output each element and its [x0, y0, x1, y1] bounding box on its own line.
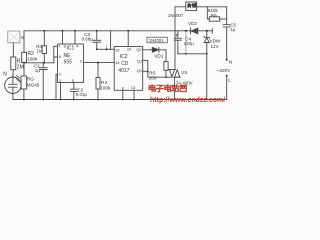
svg-text:5: 5: [72, 78, 74, 83]
wire pin 3 to pin 14: [84, 62, 115, 64]
wire Q2 output: [143, 49, 153, 51]
load box label: [188, 3, 197, 7]
switch S: [8, 31, 20, 43]
capacitor C4: [174, 31, 181, 54]
wire VD1 to R5: [159, 50, 166, 62]
neon lamp N: [5, 76, 21, 93]
wire S to R1: [12, 43, 14, 57]
wire pin 1 to bottom rail: [60, 83, 62, 100]
svg-text:http://www.cndzz.com/: http://www.cndzz.com/: [150, 97, 225, 104]
svg-text:N: N: [229, 60, 233, 66]
svg-text:2: 2: [59, 71, 61, 76]
resistor R2: [22, 52, 27, 62]
resistor R5: [164, 62, 168, 71]
wire node line R2 C1 R3 to pins 6-7: [24, 62, 54, 64]
wire stub above reset node: [106, 45, 108, 50]
wire C4 bottom to zener node: [178, 53, 207, 55]
resistor R3: [42, 46, 46, 54]
wire Q1 output: [143, 60, 148, 71]
diode VD1: [152, 47, 159, 52]
label 1N4001 box: [147, 37, 167, 43]
svg-text:4017: 4017: [118, 68, 129, 74]
pin numbers IC2: [115, 46, 142, 90]
IC U2 CD4017 box: [114, 47, 143, 91]
svg-text:NE: NE: [64, 53, 72, 59]
capacitor C3: [93, 31, 101, 50]
svg-text:Q0: Q0: [137, 68, 143, 73]
wire pin 13 to bottom rail: [133, 90, 135, 99]
svg-text:VD2: VD2: [188, 21, 197, 26]
capacitor C5: [223, 7, 230, 60]
svg-text:6: 6: [59, 54, 61, 59]
svg-text:0.68μ: 0.68μ: [82, 37, 94, 42]
zener VDW: [204, 31, 209, 54]
svg-text:~220V: ~220V: [216, 68, 231, 74]
load box 负载: [186, 2, 197, 11]
svg-text:13: 13: [131, 85, 135, 90]
svg-text:S: S: [21, 35, 24, 40]
wire L to bottom rail: [226, 77, 228, 100]
wire pin 16 to rail: [127, 31, 129, 47]
terminal L: [226, 75, 228, 77]
svg-text:220μ: 220μ: [184, 41, 195, 46]
svg-text:R6: R6: [211, 13, 217, 18]
wire zener to bottom rail: [206, 54, 208, 100]
svg-text:7: 7: [58, 44, 60, 49]
svg-text:1μ: 1μ: [35, 68, 41, 73]
capacitor C1: [40, 63, 48, 100]
wire triac MT1 to bottom rail: [174, 77, 176, 99]
svg-text:1: 1: [59, 78, 61, 83]
watermark line 1: [149, 85, 186, 92]
svg-text:8: 8: [64, 44, 66, 49]
wire R5 to gate line: [165, 70, 167, 77]
svg-text:VS: VS: [181, 70, 187, 76]
wire pins 6 7 tie: [54, 46, 58, 63]
svg-text:MG45: MG45: [27, 82, 40, 87]
wire rail tap down: [185, 31, 187, 54]
svg-text:100k: 100k: [27, 57, 38, 62]
wire R2 to RG: [23, 63, 25, 76]
triac VS: [169, 69, 181, 77]
photoresistor RG: [16, 75, 26, 89]
svg-text:1μ: 1μ: [230, 27, 235, 32]
wire pin 4 to rail: [74, 31, 76, 44]
op-amp U1 IC1 NE555 box: [58, 44, 84, 83]
wire neon to bottom rail: [12, 93, 14, 99]
resistor R6: [207, 7, 226, 21]
svg-text:3: 3: [80, 58, 82, 63]
wire pin 2 to bottom rail: [56, 74, 58, 99]
svg-text:1N4007: 1N4007: [168, 13, 184, 18]
wire rail end tick: [211, 29, 213, 34]
svg-text:0.01μ: 0.01μ: [76, 92, 88, 97]
wire pin 8 to bottom rail: [122, 90, 124, 99]
svg-text:Q1: Q1: [137, 58, 142, 63]
wire reset line to pin 15: [97, 48, 114, 50]
resistor R1: [11, 57, 16, 70]
wire rail left end down to R2: [23, 31, 25, 53]
svg-text:100k: 100k: [100, 86, 111, 91]
svg-text:1M: 1M: [36, 49, 43, 54]
svg-text:12V: 12V: [211, 44, 220, 49]
resistor R4: [96, 63, 100, 100]
svg-text:VD1: VD1: [154, 53, 164, 59]
wire load branch down through rail to triac MT2: [175, 7, 186, 70]
pin numbers IC1: [58, 44, 81, 83]
capacitor C2: [70, 83, 77, 100]
svg-text:L: L: [228, 77, 231, 83]
wire top rail: [24, 30, 212, 32]
wire rail drop to reset line: [110, 31, 112, 50]
wire RG to bottom rail: [23, 89, 25, 100]
svg-text:16: 16: [127, 46, 131, 51]
svg-text:8: 8: [122, 85, 124, 90]
svg-text:555: 555: [64, 60, 73, 66]
wire bottom rail: [13, 99, 227, 101]
wire R3 to node: [43, 54, 45, 63]
junction dots: [23, 30, 208, 101]
svg-text:Q2: Q2: [136, 47, 141, 52]
svg-text:2M: 2M: [17, 65, 24, 71]
diode VD2: [191, 28, 198, 34]
terminal N: [226, 59, 228, 61]
wire Q0 output: [143, 70, 148, 72]
wire R1 to neon: [12, 70, 14, 77]
svg-text:15: 15: [115, 47, 119, 52]
wire pin 8 to rail: [62, 31, 64, 44]
svg-text:1N4001: 1N4001: [149, 38, 164, 43]
svg-text:IC2: IC2: [120, 54, 128, 60]
svg-text:IC1: IC1: [67, 46, 75, 52]
svg-text:200: 200: [149, 76, 157, 81]
svg-text:N: N: [3, 72, 7, 78]
svg-text:CD: CD: [121, 61, 129, 67]
wire rail to R3: [43, 31, 45, 46]
wire load to right vertical: [197, 6, 227, 8]
wire Q1 Q0 down to gate line: [148, 71, 172, 77]
